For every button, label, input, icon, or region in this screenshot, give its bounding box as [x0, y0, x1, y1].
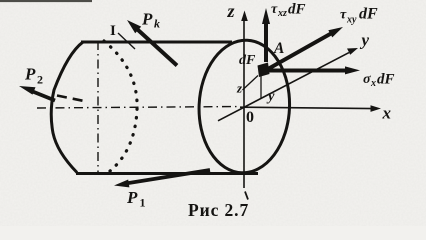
svg-text:Рис 2.7: Рис 2.7	[188, 200, 249, 220]
svg-text:τ: τ	[340, 8, 347, 23]
svg-text:1: 1	[140, 196, 146, 210]
svg-text:dF: dF	[288, 2, 306, 18]
svg-text:A: A	[273, 40, 284, 57]
svg-text:P: P	[141, 10, 153, 29]
svg-text:y: y	[266, 89, 275, 105]
cylinder bottom generator line	[76, 172, 258, 175]
svg-text:z: z	[236, 81, 243, 96]
svg-text:x: x	[382, 104, 392, 123]
svg-text:x: x	[370, 78, 376, 89]
y axis	[218, 53, 349, 121]
svg-text:y: y	[360, 31, 370, 50]
svg-text:dF: dF	[359, 6, 378, 23]
left end-cap solid arc	[51, 42, 83, 173]
force arrow P2	[31, 91, 56, 101]
cross-section ellipse	[196, 38, 292, 174]
force arrow P1	[127, 170, 210, 183]
svg-text:k: k	[154, 17, 160, 31]
left end-cap vertical dash-dot axis	[97, 41, 99, 173]
construction vertical drop from element	[260, 75, 262, 99]
cylinder top generator line	[81, 41, 232, 44]
construction line z-axis to element	[243, 76, 259, 91]
svg-text:P: P	[24, 65, 36, 84]
svg-text:xy: xy	[346, 15, 357, 26]
svg-text:P: P	[126, 188, 138, 207]
z axis lower tick	[245, 192, 248, 200]
x axis	[240, 107, 373, 108]
svg-text:z: z	[227, 1, 235, 21]
scan artifact: dark top-left edge line	[0, 0, 92, 2]
svg-text:dF: dF	[239, 53, 256, 68]
arrow tau_xz dF	[264, 22, 268, 62]
svg-text:xz: xz	[277, 8, 287, 19]
svg-text:0: 0	[246, 109, 254, 126]
force arrow Pk	[138, 30, 178, 66]
bold stress arrows	[19, 8, 360, 187]
svg-text:τ: τ	[271, 2, 278, 17]
horizontal dash-dot center line	[37, 107, 240, 109]
element dF black square at A	[258, 63, 270, 78]
P2 hidden dashed line of action	[57, 96, 84, 102]
section mark I line	[118, 33, 135, 49]
svg-text:dF: dF	[377, 72, 395, 88]
svg-text:2: 2	[37, 73, 43, 87]
left end-cap hidden dotted arc	[104, 41, 137, 171]
z axis	[218, 11, 381, 200]
arrow tau_xy dF	[268, 34, 331, 70]
svg-text:I: I	[110, 23, 116, 39]
svg-text:σ: σ	[363, 72, 371, 87]
arrow sigma_x dF	[269, 69, 347, 73]
